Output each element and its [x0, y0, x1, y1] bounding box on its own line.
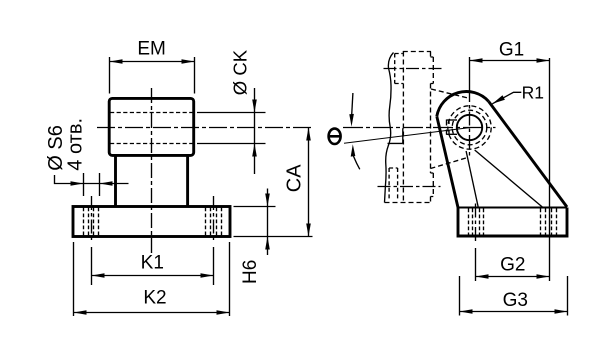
EM dimension line — [110, 61, 195, 63]
left hole counterbore hidden lines — [84, 208, 99, 236]
neck left edge — [114, 155, 117, 206]
boss hidden circle inner — [452, 110, 487, 145]
base top edge — [458, 207, 567, 209]
H6 dimension line — [267, 189, 269, 256]
CK dimension line — [254, 88, 256, 174]
K1 dimension line — [92, 275, 214, 277]
theta symbol — [329, 129, 341, 144]
base right hole center line and G1 extension — [549, 58, 551, 281]
K1 extension line left — [91, 247, 93, 285]
G2 extension line left — [475, 248, 477, 281]
boss vertical center line — [469, 88, 471, 158]
G3 extension line right — [567, 276, 569, 316]
bore circle — [457, 115, 482, 140]
gusset edge line left — [466, 151, 478, 208]
svg-text:R1: R1 — [522, 82, 544, 102]
block vertical center line — [151, 88, 153, 253]
bore hidden line upper — [110, 112, 193, 114]
EM arrow left — [110, 59, 123, 64]
base left hole counterbore hidden lines — [469, 209, 484, 236]
K2 arrow right — [217, 310, 230, 315]
phantom plate bottom edge — [385, 202, 431, 204]
phantom tangent line lower — [430, 158, 466, 169]
G1 arrow left — [470, 58, 483, 63]
right hole hidden lines — [211, 208, 217, 236]
G2 arrow right — [537, 274, 550, 279]
phantom plate top edge — [403, 51, 431, 53]
bore hidden line lower — [110, 143, 193, 145]
svg-text:CA: CA — [283, 164, 305, 192]
EM dimension extension lines — [110, 57, 195, 94]
G2 dimension line — [476, 276, 550, 278]
phantom left step top hole — [395, 54, 404, 84]
K1 arrow left — [92, 273, 105, 278]
G1 dimension line — [470, 60, 550, 62]
theta arrow upper — [352, 93, 353, 115]
svg-text:K1: K1 — [141, 253, 164, 274]
bore slot detail — [447, 120, 458, 135]
boss outer arc — [437, 92, 489, 117]
right hole center line — [213, 196, 215, 243]
K2 arrow left — [74, 310, 87, 315]
svg-text:K2: K2 — [143, 288, 166, 309]
flange outline — [73, 207, 230, 237]
phantom break wavy line — [385, 53, 394, 203]
base left hole center line — [475, 204, 477, 245]
svg-text:H6: H6 — [240, 260, 261, 284]
H6 arrow upper — [265, 194, 270, 207]
boss horizontal center line — [343, 127, 496, 129]
H6 extension line upper — [234, 206, 276, 208]
right hole counterbore hidden lines — [206, 208, 222, 236]
phantom right step top — [431, 57, 434, 84]
bore horizontal center line — [97, 127, 313, 129]
theta arrow lower — [353, 156, 359, 169]
phantom top hole center line — [384, 68, 444, 70]
K2 extension line left — [73, 242, 75, 316]
svg-text:4 отв.: 4 отв. — [64, 118, 86, 171]
S6 arrow right — [100, 181, 113, 186]
CK extension line upper — [197, 112, 266, 114]
base outline — [458, 208, 567, 237]
G2 arrow left — [476, 274, 489, 279]
CA arrow upper — [306, 128, 311, 141]
CK extension line lower — [197, 143, 266, 145]
pivot block outline — [109, 98, 194, 155]
CK arrow lower — [252, 144, 257, 157]
S6 extension tick left — [83, 173, 85, 196]
K1 extension line right — [213, 247, 215, 285]
R1 arrow — [492, 95, 505, 104]
K2 dimension line — [74, 312, 230, 314]
H6 arrow lower — [265, 237, 270, 250]
svg-text:Ø CK: Ø CK — [229, 49, 250, 95]
svg-text:G2: G2 — [500, 254, 525, 275]
CA dimension line — [308, 128, 310, 237]
G3 arrow left — [460, 309, 473, 314]
gusset edge line right — [475, 150, 543, 208]
bracket left slant edge — [437, 116, 458, 207]
left hole hidden lines — [89, 208, 94, 236]
G3 dimension line — [460, 311, 568, 313]
svg-text:G1: G1 — [499, 39, 524, 60]
phantom bottom hole center line — [378, 186, 441, 188]
phantom right step bottom — [431, 173, 434, 197]
R1 leader — [492, 92, 521, 104]
S6 arrow left — [71, 181, 84, 186]
base left hole hidden lines — [473, 209, 480, 236]
left hole center line — [91, 196, 93, 243]
S6 extension tick right — [99, 173, 101, 196]
phantom plate left edge — [402, 52, 404, 203]
G1 arrow right — [537, 58, 550, 63]
phantom tangent line upper — [431, 89, 468, 98]
G3 arrow right — [555, 309, 568, 314]
base right hole hidden lines — [546, 209, 552, 236]
S6 leader hook — [55, 175, 129, 184]
svg-text:G3: G3 — [503, 290, 528, 311]
neck right edge — [186, 155, 189, 206]
base right hole counterbore hidden lines — [541, 209, 557, 236]
boss hidden circle outer — [448, 106, 491, 149]
svg-text:EM: EM — [137, 39, 166, 60]
G3 extension line left — [459, 276, 461, 316]
phantom plate right edge segments — [430, 52, 432, 203]
phantom solid tab edge — [388, 128, 403, 143]
CK arrow upper — [252, 100, 257, 113]
K1 arrow right — [201, 273, 214, 278]
EM arrow right — [182, 59, 195, 64]
K2 extension line right — [229, 242, 231, 316]
G1 extension line left — [469, 57, 471, 88]
bracket right slant edge — [489, 101, 567, 207]
phantom left step bottom hole — [389, 168, 398, 201]
CA arrow lower — [306, 224, 311, 237]
H6 extension line lower — [234, 236, 313, 238]
swivel axis line — [344, 128, 470, 144]
